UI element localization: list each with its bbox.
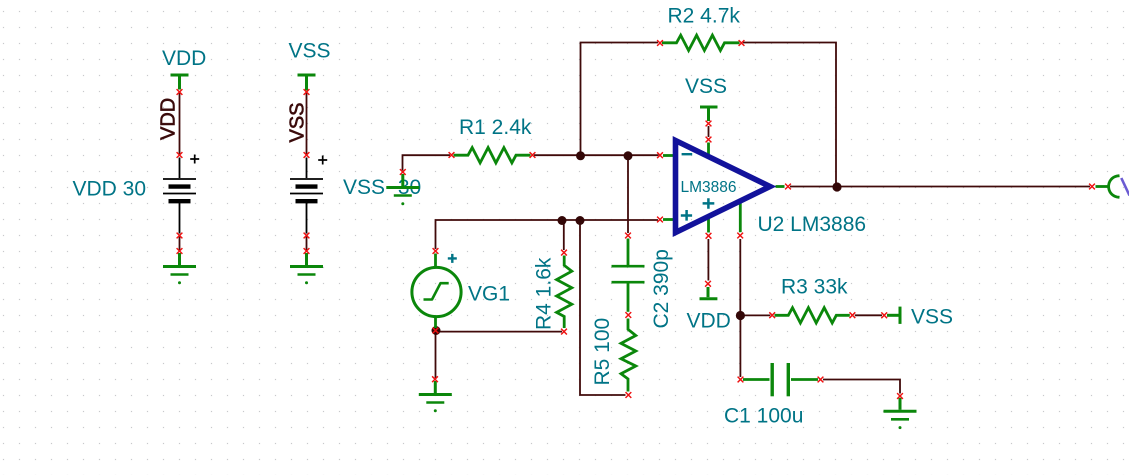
svg-text:R5 100: R5 100 (591, 318, 614, 386)
svg-text:VDD: VDD (162, 47, 206, 70)
svg-text:R1 2.4k: R1 2.4k (459, 116, 532, 139)
svg-text:C1 100u: C1 100u (724, 404, 803, 427)
svg-text:U2 LM3886: U2 LM3886 (758, 213, 867, 236)
svg-text:VDD: VDD (687, 310, 731, 333)
svg-text:R4 1.6k: R4 1.6k (533, 257, 556, 330)
svg-text:LM3886: LM3886 (681, 179, 737, 196)
svg-text:R2 4.7k: R2 4.7k (668, 4, 741, 27)
svg-text:C2 390p: C2 390p (650, 249, 673, 328)
svg-text:VSS: VSS (287, 102, 309, 142)
svg-text:VDD: VDD (157, 98, 179, 140)
svg-text:VG1: VG1 (468, 283, 510, 306)
svg-text:R3 33k: R3 33k (781, 276, 848, 299)
svg-text:VSS: VSS (685, 75, 727, 98)
svg-text:VDD 30: VDD 30 (73, 177, 147, 200)
svg-text:VSS: VSS (289, 40, 331, 63)
svg-text:VSS: VSS (911, 306, 953, 329)
